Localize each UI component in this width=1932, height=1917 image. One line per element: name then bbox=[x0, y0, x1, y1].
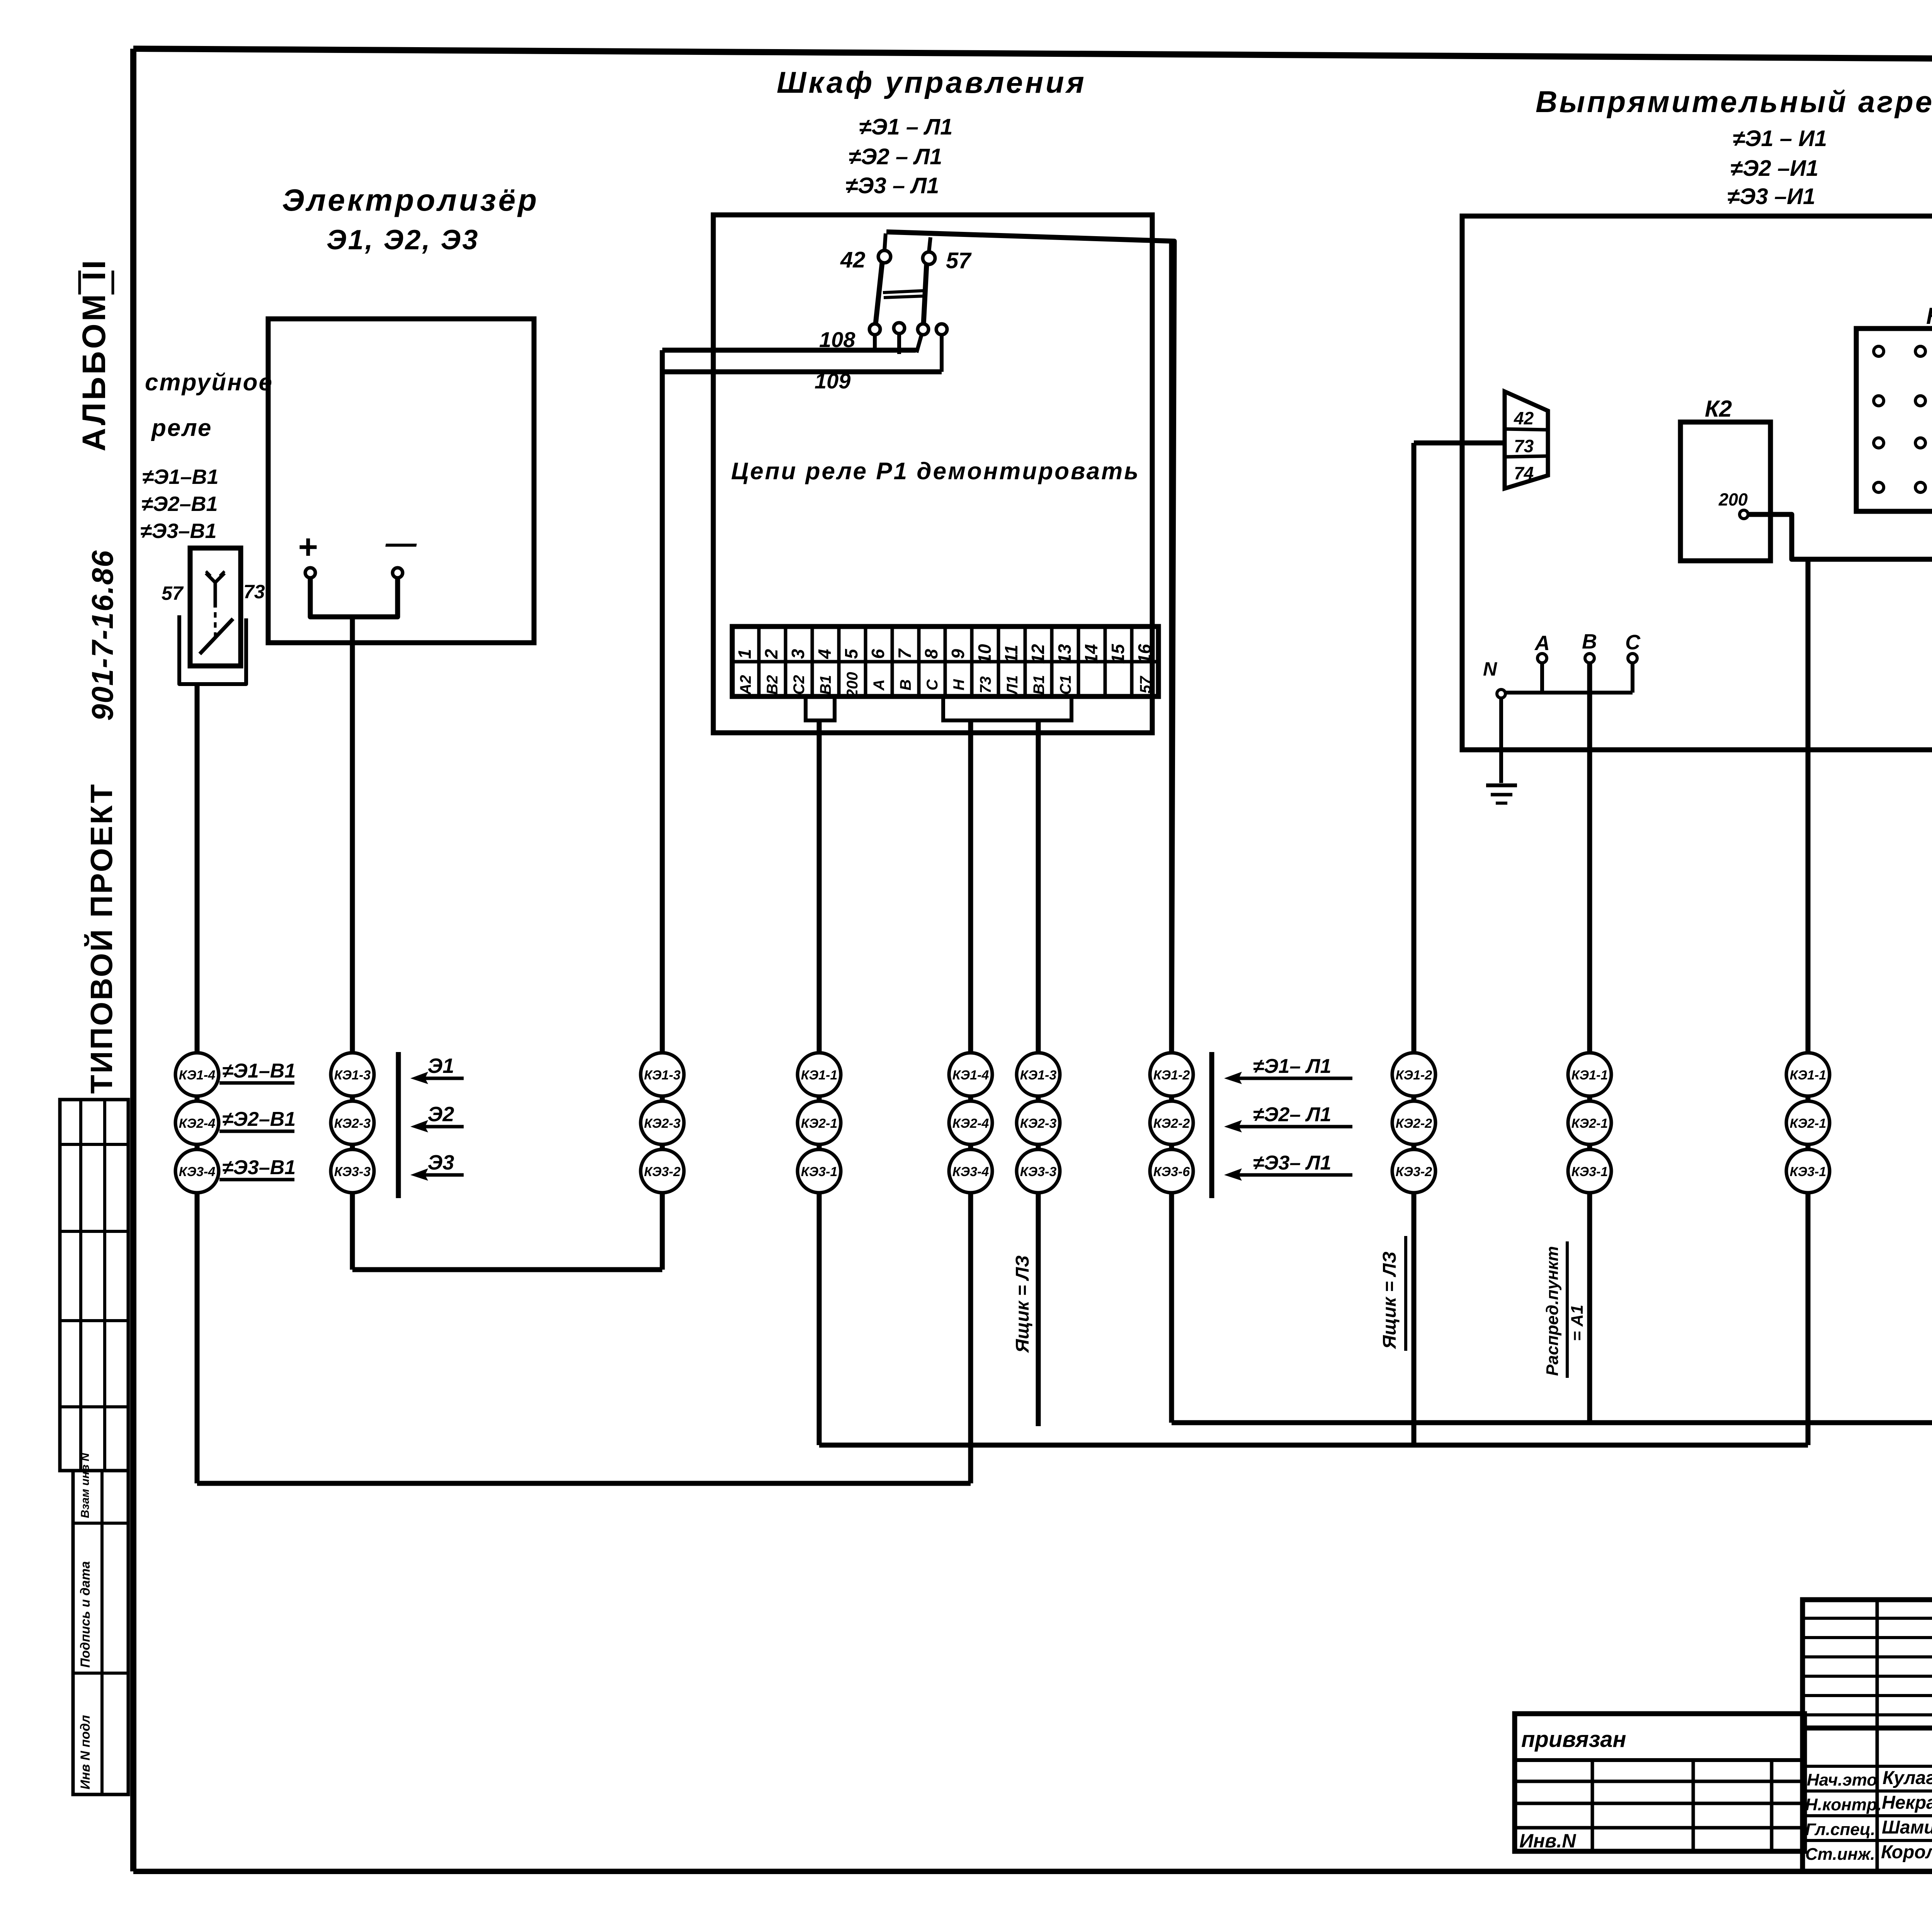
svg-text:С1: С1 bbox=[1057, 675, 1074, 695]
cable circles column x=510 bbox=[175, 1053, 219, 1193]
privyazan table bottom left bbox=[1515, 1714, 1804, 1852]
svg-text:57: 57 bbox=[162, 582, 184, 604]
svg-text:КЭ1-1: КЭ1-1 bbox=[801, 1068, 837, 1083]
wire contact to right side bbox=[886, 232, 1174, 1054]
svg-text:2: 2 bbox=[761, 649, 781, 659]
svg-text:В1: В1 bbox=[1031, 675, 1048, 695]
terminal wedge 42/73/74 bbox=[1505, 392, 1548, 489]
svg-text:≠Э1 – Л1: ≠Э1 – Л1 bbox=[859, 114, 952, 140]
svg-text:КЭ2-2: КЭ2-2 bbox=[1153, 1116, 1190, 1131]
svg-text:КЭ2-4: КЭ2-4 bbox=[952, 1116, 989, 1131]
jet relay symbol B1 bbox=[190, 548, 241, 666]
wire cable column x=4679 bbox=[1806, 559, 1811, 1445]
wire electrolyzer output down bbox=[350, 617, 355, 1054]
wire electrolyzer U-link bbox=[310, 578, 398, 617]
margin stamp table lower (Vzam/Podpis/Inv) bbox=[73, 1452, 128, 1794]
svg-text:42: 42 bbox=[840, 247, 866, 272]
svg-text:Некрасов: Некрасов bbox=[1882, 1793, 1932, 1813]
svg-text:N: N bbox=[1483, 658, 1497, 680]
wire cable column x=2687 bbox=[1036, 720, 1041, 1426]
svg-text:57: 57 bbox=[1137, 676, 1154, 693]
wire 109 bbox=[662, 369, 942, 375]
wire cable column down from wedge bbox=[1412, 443, 1417, 1445]
svg-text:1: 1 bbox=[735, 649, 755, 659]
contact terminal 42 bbox=[878, 250, 891, 263]
svg-text:В1: В1 bbox=[817, 675, 834, 695]
svg-text:74: 74 bbox=[1514, 463, 1534, 483]
svg-text:КЭ3-6: КЭ3-6 bbox=[1153, 1165, 1190, 1179]
svg-text:≠Э2–В1: ≠Э2–В1 bbox=[141, 492, 218, 516]
contact pole A bbox=[876, 263, 882, 324]
contact bottom terminal 2 bbox=[894, 323, 905, 334]
svg-text:Инв.N: Инв.N bbox=[1519, 1830, 1576, 1852]
svg-text:ТИПОВОЙ ПРОЕКТ: ТИПОВОЙ ПРОЕКТ bbox=[84, 783, 119, 1094]
svg-text:КЭ3-2: КЭ3-2 bbox=[644, 1165, 681, 1179]
ground symbol bbox=[1486, 783, 1517, 787]
wire cable column x=1714 bbox=[660, 350, 665, 1270]
cable circles column x=1714 bbox=[641, 1053, 684, 1193]
svg-text:КЭ3-4: КЭ3-4 bbox=[179, 1165, 216, 1179]
signature rows names bbox=[1805, 1768, 1932, 1864]
wire strip tabB down right bbox=[1036, 720, 1041, 1054]
box K4 selector bbox=[1856, 303, 1932, 511]
svg-text:Э1, Э2, Э3: Э1, Э2, Э3 bbox=[327, 225, 479, 255]
svg-text:10: 10 bbox=[975, 644, 995, 664]
contact hatch marks bbox=[883, 291, 924, 293]
bus tabA cable to K2 cable bbox=[819, 1443, 1808, 1448]
cable circles column x=912 bbox=[331, 1053, 374, 1193]
cable circles column x=3032 bbox=[1150, 1053, 1193, 1193]
svg-text:Инв N подл: Инв N подл bbox=[78, 1715, 93, 1789]
svg-text:108: 108 bbox=[819, 327, 855, 352]
svg-text:КЭ3-2: КЭ3-2 bbox=[1396, 1165, 1432, 1179]
svg-text:Нач.это: Нач.это bbox=[1807, 1771, 1877, 1789]
svg-text:≠Э3 – Л1: ≠Э3 – Л1 bbox=[845, 173, 939, 198]
cable circles column x=2512 bbox=[949, 1053, 992, 1193]
box control cabinet bbox=[713, 215, 1152, 733]
margin stamp table upper bbox=[60, 1100, 128, 1471]
svg-text:109: 109 bbox=[815, 369, 850, 393]
svg-text:привязан: привязан bbox=[1521, 1727, 1626, 1752]
bus electrolyzer to 108/109 cable bbox=[352, 1267, 662, 1272]
wire cable column x=510 bbox=[195, 684, 200, 1483]
box K2 bbox=[1680, 422, 1770, 561]
contact bottom terminal 4 bbox=[936, 324, 947, 335]
svg-text:Ящик = ЛЗ: Ящик = ЛЗ bbox=[1012, 1255, 1033, 1353]
svg-text:С2: С2 bbox=[791, 675, 808, 695]
svg-text:В2: В2 bbox=[764, 675, 781, 695]
svg-text:≠Э1 – И1: ≠Э1 – И1 bbox=[1733, 126, 1827, 151]
svg-text:42: 42 bbox=[1514, 408, 1534, 428]
svg-text:≠Э3 –И1: ≠Э3 –И1 bbox=[1727, 184, 1815, 209]
cable circles column x=2120 bbox=[798, 1053, 841, 1193]
svg-text:13: 13 bbox=[1054, 644, 1075, 664]
contact bottom terminal 3 bbox=[918, 324, 929, 335]
svg-text:—: — bbox=[385, 526, 417, 560]
labels =E1-B1 group bbox=[219, 1060, 296, 1180]
svg-text:КЭ1-3: КЭ1-3 bbox=[334, 1068, 371, 1083]
svg-text:Выпрямительный агрегат: Выпрямительный агрегат bbox=[1536, 85, 1932, 119]
terminal strip tab B bbox=[943, 696, 1071, 720]
svg-text:КЭ3-1: КЭ3-1 bbox=[1571, 1165, 1608, 1179]
labels E1 E2 E3 arrows group bbox=[398, 1052, 464, 1198]
terminal strip XT in cabinet bbox=[732, 627, 1158, 698]
svg-text:4: 4 bbox=[815, 649, 835, 659]
wire cable column x=2512 bbox=[968, 720, 973, 1483]
svg-text:КЭ1-1: КЭ1-1 bbox=[1790, 1068, 1826, 1083]
svg-text:КЭ2-3: КЭ2-3 bbox=[1020, 1116, 1057, 1131]
svg-text:= А1: = А1 bbox=[1568, 1305, 1587, 1341]
svg-text:≠Э2–В1: ≠Э2–В1 bbox=[222, 1108, 296, 1130]
svg-text:КЭ1-2: КЭ1-2 bbox=[1396, 1068, 1432, 1083]
cable circles column x=3659 bbox=[1392, 1053, 1435, 1193]
wire cable column x=4114 bbox=[1587, 663, 1592, 1423]
svg-text:Цепи реле Р1 демонтировать: Цепи реле Р1 демонтировать bbox=[731, 458, 1140, 485]
svg-text:С: С bbox=[924, 679, 941, 690]
svg-text:реле: реле bbox=[151, 415, 212, 441]
svg-text:КЭ2-2: КЭ2-2 bbox=[1396, 1116, 1432, 1131]
wire strip tabB down left bbox=[968, 720, 973, 1054]
box electrolyzer E1 E2 E3 bbox=[268, 319, 534, 643]
svg-text:Распред.пункт: Распред.пункт bbox=[1543, 1246, 1562, 1376]
svg-text:А: А bbox=[1534, 632, 1550, 655]
svg-text:Королева: Королева bbox=[1881, 1842, 1932, 1863]
contact pole B bbox=[923, 264, 927, 324]
svg-text:КЭ2-3: КЭ2-3 bbox=[334, 1116, 371, 1131]
svg-text:КЭ2-1: КЭ2-1 bbox=[801, 1116, 837, 1131]
svg-text:КЭ3-4: КЭ3-4 bbox=[952, 1165, 989, 1179]
svg-text:≠Э3–В1: ≠Э3–В1 bbox=[222, 1156, 296, 1179]
svg-text:Гл.спец.: Гл.спец. bbox=[1805, 1820, 1875, 1839]
wire relay surround bbox=[179, 615, 246, 684]
svg-text:≠Э1–В1: ≠Э1–В1 bbox=[142, 465, 219, 489]
wire cable column x=2120 bbox=[817, 720, 822, 1445]
svg-text:КЭ1-4: КЭ1-4 bbox=[952, 1068, 989, 1083]
cable circles column x=4679 bbox=[1786, 1053, 1830, 1193]
wire cable column x=3032 bbox=[1169, 241, 1174, 1423]
svg-text:Шамилов: Шамилов bbox=[1882, 1817, 1932, 1838]
labels =E1-L1 arrows group bbox=[1212, 1052, 1352, 1198]
svg-text:А: А bbox=[871, 679, 888, 691]
svg-text:КЭ3-3: КЭ3-3 bbox=[1020, 1165, 1057, 1179]
svg-text:К4: К4 bbox=[1926, 303, 1932, 329]
svg-text:Шкаф управления: Шкаф управления bbox=[777, 65, 1087, 99]
svg-text:≠Э2 –И1: ≠Э2 –И1 bbox=[1730, 156, 1818, 181]
svg-text:Кулагин: Кулагин bbox=[1883, 1768, 1932, 1788]
wire phase bus bbox=[1505, 691, 1633, 695]
svg-text:12: 12 bbox=[1028, 644, 1048, 664]
wire relay output down bbox=[195, 684, 200, 1054]
svg-text:16: 16 bbox=[1134, 644, 1155, 664]
svg-text:73: 73 bbox=[243, 581, 265, 603]
svg-text:КЭ3-1: КЭ3-1 bbox=[801, 1165, 837, 1179]
terminal strip tab A bbox=[806, 696, 835, 720]
svg-text:КЭ1-3: КЭ1-3 bbox=[644, 1068, 681, 1083]
wire 200 to K4 contact 81 bbox=[1748, 448, 1932, 559]
svg-text:КЭ3-3: КЭ3-3 bbox=[334, 1165, 371, 1179]
K4 contact grid bbox=[1874, 346, 1932, 492]
vertical margin text ALBOM II bbox=[76, 258, 113, 451]
svg-text:14: 14 bbox=[1081, 644, 1101, 664]
svg-text:6: 6 bbox=[868, 649, 888, 659]
svg-text:Взам инв N: Взам инв N bbox=[79, 1452, 92, 1518]
svg-text:Ст.инж.: Ст.инж. bbox=[1805, 1845, 1875, 1864]
svg-text:≠Э2 – Л1: ≠Э2 – Л1 bbox=[849, 144, 942, 169]
wire 108/109 down to cable circles bbox=[660, 350, 665, 1054]
contact bottom terminal 1 bbox=[869, 324, 880, 335]
svg-text:≠Э3– Л1: ≠Э3– Л1 bbox=[1253, 1152, 1332, 1174]
box rectifier unit bbox=[1462, 216, 1932, 750]
svg-text:Подпись и дата: Подпись и дата bbox=[78, 1561, 93, 1668]
wire strip tabA down bbox=[817, 720, 822, 1054]
wire N to ground bbox=[1499, 698, 1503, 783]
svg-text:В: В bbox=[897, 679, 914, 691]
svg-text:73: 73 bbox=[1514, 436, 1534, 456]
svg-text:Н: Н bbox=[951, 679, 968, 690]
wire phase B down to cable bbox=[1587, 663, 1592, 1423]
contact terminal 57 bbox=[923, 252, 935, 264]
wire 108 bbox=[662, 348, 916, 353]
svg-text:Э3: Э3 bbox=[428, 1151, 454, 1174]
svg-text:200: 200 bbox=[1718, 490, 1748, 509]
svg-text:КЭ1-2: КЭ1-2 bbox=[1153, 1068, 1190, 1083]
svg-text:К2: К2 bbox=[1705, 396, 1732, 422]
svg-text:струйное: струйное bbox=[145, 369, 273, 396]
svg-text:901-7-16.86: 901-7-16.86 bbox=[85, 550, 119, 721]
cable circles column x=4114 bbox=[1568, 1053, 1611, 1193]
svg-text:Н.контр.: Н.контр. bbox=[1805, 1795, 1882, 1814]
svg-text:Электролизёр: Электролизёр bbox=[282, 183, 539, 217]
svg-text:КЭ1-1: КЭ1-1 bbox=[1571, 1068, 1608, 1083]
svg-text:≠Э1–В1: ≠Э1–В1 bbox=[222, 1060, 296, 1082]
svg-text:57: 57 bbox=[946, 248, 972, 273]
svg-text:≠Э2– Л1: ≠Э2– Л1 bbox=[1253, 1103, 1332, 1126]
svg-text:≠Э1– Л1: ≠Э1– Л1 bbox=[1253, 1055, 1332, 1078]
svg-text:8: 8 bbox=[921, 649, 941, 659]
title block main bbox=[1803, 1600, 1932, 1871]
svg-text:А2: А2 bbox=[737, 675, 754, 695]
svg-text:Ящик = ЛЗ: Ящик = ЛЗ bbox=[1379, 1251, 1400, 1350]
wire cable column x=912 bbox=[350, 617, 355, 1270]
vertical margin text TIPOVOY PROEKT 901-7-16.86 bbox=[84, 550, 119, 1094]
svg-text:С: С bbox=[1625, 631, 1641, 654]
svg-text:7: 7 bbox=[895, 648, 915, 659]
bus left relay cable to tabB cable bbox=[197, 1481, 971, 1486]
svg-text:В: В bbox=[1582, 630, 1597, 653]
svg-text:≠Э3–В1: ≠Э3–В1 bbox=[140, 519, 217, 543]
svg-text:15: 15 bbox=[1108, 644, 1128, 664]
svg-text:КЭ2-3: КЭ2-3 bbox=[644, 1116, 681, 1131]
svg-text:КЭ2-1: КЭ2-1 bbox=[1571, 1116, 1608, 1131]
svg-text:КЭ2-1: КЭ2-1 bbox=[1790, 1116, 1826, 1131]
wire wedge to left (to cable) bbox=[1414, 441, 1505, 446]
svg-text:Э1: Э1 bbox=[428, 1054, 454, 1078]
svg-text:11: 11 bbox=[1001, 645, 1021, 663]
bus contact cable to dc cable bbox=[1172, 1420, 1932, 1425]
wire junction down from 200 net bbox=[1806, 559, 1811, 1445]
wire cable column x=3659 bbox=[1412, 443, 1417, 1445]
svg-text:АЛЬБОМ II: АЛЬБОМ II bbox=[76, 258, 112, 451]
svg-text:200: 200 bbox=[844, 672, 861, 698]
svg-text:КЭ1-3: КЭ1-3 bbox=[1020, 1068, 1057, 1083]
svg-text:КЭ3-1: КЭ3-1 bbox=[1790, 1165, 1826, 1179]
cable circles column x=2687 bbox=[1017, 1053, 1060, 1193]
svg-text:9: 9 bbox=[948, 649, 968, 659]
svg-text:Л1: Л1 bbox=[1004, 675, 1021, 696]
svg-text:КЭ2-4: КЭ2-4 bbox=[179, 1116, 216, 1131]
svg-text:+: + bbox=[298, 528, 317, 566]
svg-text:73: 73 bbox=[977, 676, 994, 694]
svg-text:5: 5 bbox=[841, 649, 861, 659]
svg-text:3: 3 bbox=[788, 649, 808, 659]
svg-text:Э2: Э2 bbox=[428, 1103, 454, 1126]
svg-text:КЭ1-4: КЭ1-4 bbox=[179, 1068, 216, 1083]
